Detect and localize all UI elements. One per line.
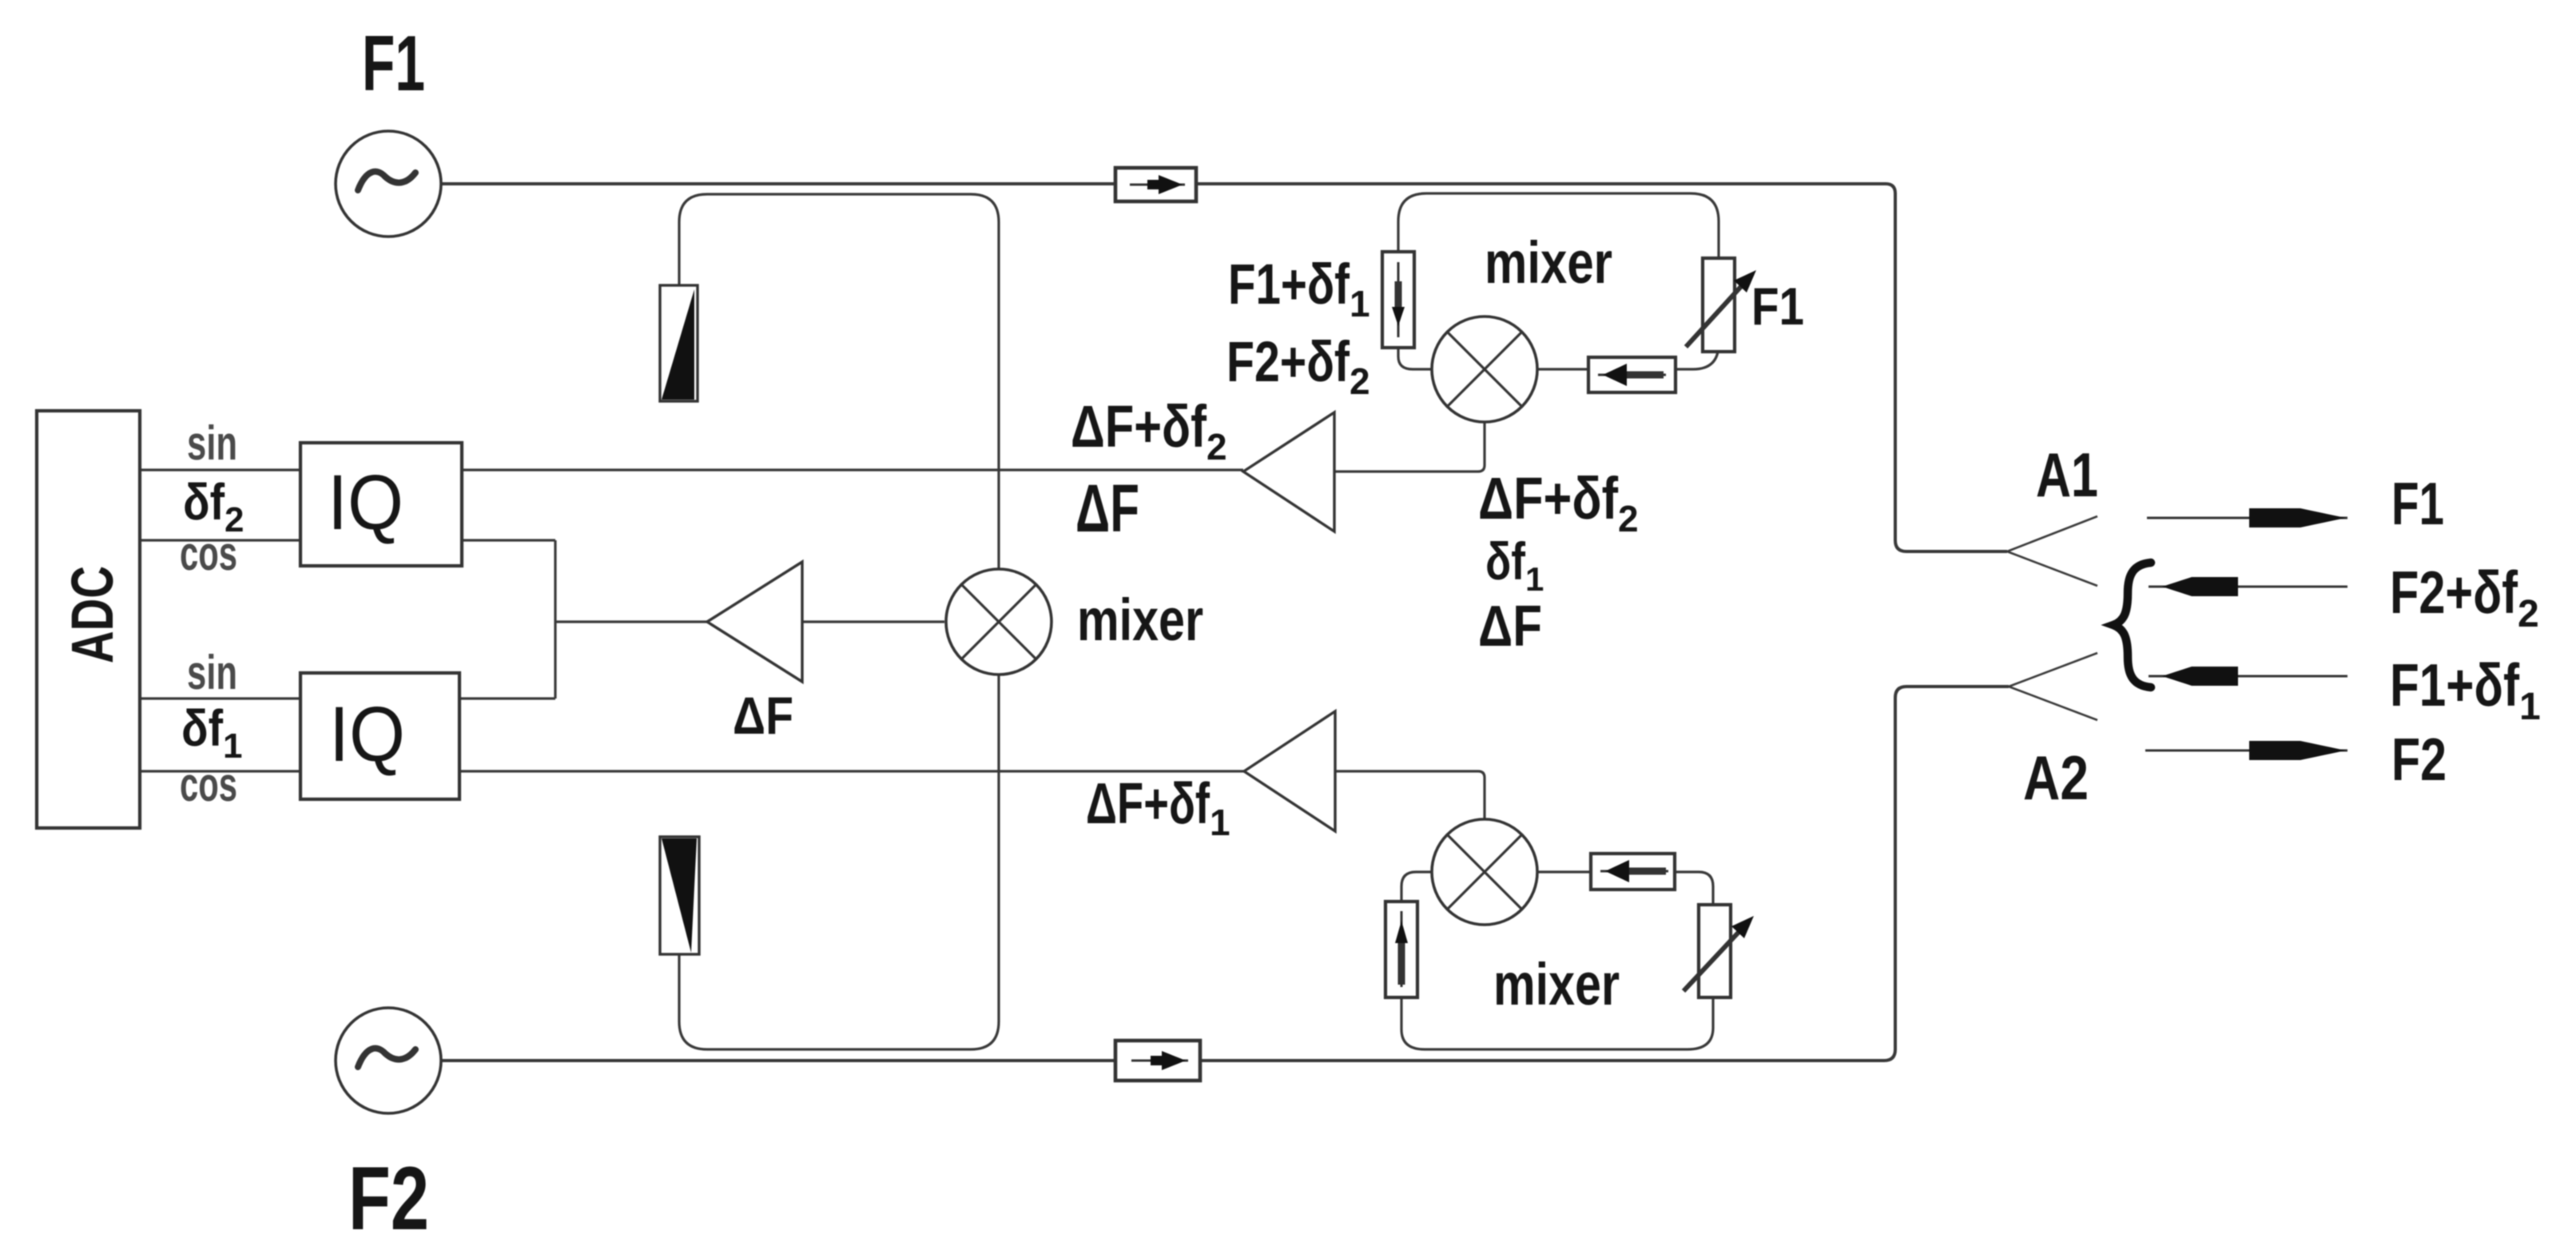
oscillator F2 [336,1008,441,1113]
svg-text:A1: A1 [2036,440,2098,510]
lower-right mixer [1432,819,1537,925]
svg-text:sin: sin [187,416,237,470]
svg-text:F1: F1 [1751,277,1804,336]
wire cos line from ADC through IQ1 to left bus [140,539,555,541]
wire upper mixer output down to upper amplifier input [1334,422,1485,472]
svg-text:IQ: IQ [329,691,405,778]
central mixer [946,569,1051,675]
svg-text:cos: cos [180,527,237,580]
svg-text:F2: F2 [348,1148,429,1238]
isolator vertical in lower-right loop (arrow up) [1385,902,1417,997]
wire lower-right mixer loop [1401,872,1713,1049]
svg-text:F2+δf2: F2+δf2 [2390,559,2539,635]
svg-text:ΔF: ΔF [733,686,793,745]
variable attenuator F1 in upper-right loop [1686,258,1756,352]
wire cos line from ADC through IQ2 to lower amplifier tip [140,770,1244,772]
antenna A2 [2009,653,2097,720]
taper attenuator upper (wedge) [660,285,698,401]
ADC block [37,411,140,828]
svg-text:F2: F2 [2391,726,2447,793]
received wave arrow F2+df2 (to the left) [2149,577,2347,596]
radiated wave arrow F2 (to the right) [2145,741,2347,760]
wire sin line from ADC through IQ1 to upper amplifier tip [140,468,1243,471]
amplifier upper dF+df2 [1243,412,1334,531]
wire central loop bottom with taper stub [679,675,999,1049]
svg-text:F1+δf1: F1+δf1 [2390,651,2541,728]
wire upper-right mixer loop [1398,193,1719,369]
svg-text:mixer: mixer [1485,229,1612,296]
svg-text:ΔF+δf2: ΔF+δf2 [1071,393,1227,468]
IQ demodulator block U1 [300,443,462,566]
received wave arrow F1+df1 (to the left) [2149,667,2347,686]
svg-text:sin: sin [187,646,237,699]
svg-text:F2+δf2: F2+δf2 [1226,331,1370,402]
antenna A1 [2007,516,2097,586]
wire left IQ bus vertical [554,540,556,699]
oscillator F1 [336,131,441,237]
wire central loop top with taper stub [679,194,999,569]
IQ demodulator block U2 [300,673,459,799]
isolator horizontal in upper-right loop (arrow left) [1588,357,1676,392]
wire F1 output line from oscillator F1 to right bus and antenna A1 stub [441,184,2007,551]
svg-text:mixer: mixer [1493,951,1620,1017]
wire amplifier dF output to left bus [555,620,707,623]
svg-text:ΔF+δf2: ΔF+δf2 [1478,465,1639,539]
svg-text:F1+δf1: F1+δf1 [1228,253,1370,324]
amplifier lower dF+df1 [1244,711,1335,831]
variable attenuator in lower-right loop [1684,905,1754,997]
svg-text:mixer: mixer [1077,587,1203,653]
svg-text:ADC: ADC [59,566,125,663]
wire sin line from ADC through IQ2 to left bus [140,697,555,699]
isolator horizontal in lower-right loop (arrow left) [1591,854,1675,890]
isolator on F1 line [1115,168,1196,201]
svg-text:ΔF: ΔF [1075,471,1139,546]
svg-text:F1: F1 [2391,470,2444,537]
isolator vertical in upper-right loop (arrow down) [1382,252,1414,348]
wire F2 line from oscillator F2 along bottom to right bus and antenna A2 stub [441,687,2009,1061]
upper-right mixer [1432,316,1537,422]
svg-text:A2: A2 [2023,742,2089,813]
taper attenuator lower (wedge) [660,837,699,954]
svg-text:cos: cos [180,758,237,811]
svg-text:ΔF+δf1: ΔF+δf1 [1086,772,1230,843]
svg-text:F1: F1 [362,19,425,107]
svg-text:ΔF: ΔF [1478,595,1542,659]
wire central mixer to amplifier dF input [802,620,944,623]
wire lower mixer output up to lower amplifier input [1335,771,1485,819]
svg-text:IQ: IQ [328,459,403,546]
radiated wave arrow F1 (to the right) [2147,508,2347,527]
amplifier dF [707,562,802,682]
brace grouping received signals [2113,563,2151,687]
isolator on F2 line [1115,1041,1200,1081]
